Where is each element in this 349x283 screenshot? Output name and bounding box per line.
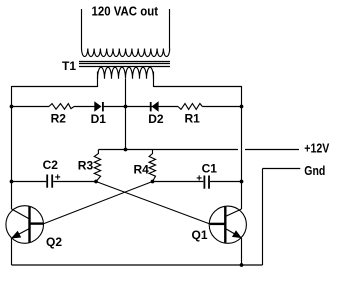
wire center tap vertical <box>125 79 127 150</box>
svg-text:Gnd: Gnd <box>304 163 325 178</box>
transformer T1 primary lead left <box>81 9 83 49</box>
wire right rail lower <box>241 238 243 265</box>
wire mid line left (R2 D1 row) <box>12 106 126 108</box>
node junction dots <box>10 105 244 267</box>
transformer T1 secondary right leg <box>153 72 155 88</box>
svg-text:R4: R4 <box>134 163 150 177</box>
svg-text:R3: R3 <box>78 159 94 173</box>
svg-text:C2: C2 <box>43 158 59 172</box>
svg-text:+: + <box>196 174 202 185</box>
svg-text:+12V: +12V <box>304 141 329 156</box>
resistor R2 <box>49 104 74 110</box>
resistor R4 <box>149 150 155 182</box>
transformer T1 secondary left leg <box>97 72 99 88</box>
capacitor C2 <box>47 175 52 188</box>
wire right rail upper <box>241 86 243 209</box>
transistor Q2 <box>6 206 44 244</box>
wire R4 to C1 <box>153 181 204 183</box>
wire Gnd stub <box>263 168 301 170</box>
svg-text:Q2: Q2 <box>46 235 62 249</box>
transistor Q1 <box>209 206 246 243</box>
svg-text:120 VAC out: 120 VAC out <box>92 3 159 18</box>
diode D2 <box>151 102 159 111</box>
wire C2 row left <box>12 181 47 183</box>
wire Gnd riser <box>262 169 264 266</box>
svg-text:R1: R1 <box>185 112 201 126</box>
svg-text:R2: R2 <box>51 112 67 126</box>
svg-text:D2: D2 <box>148 112 164 126</box>
transformer T1 primary lead right <box>169 9 171 49</box>
capacitor C1 <box>204 176 209 189</box>
resistor R3 <box>94 150 100 182</box>
wire left rail lower <box>11 238 13 265</box>
svg-text:T1: T1 <box>62 59 76 73</box>
transformer T1 core lines <box>79 62 170 67</box>
transformer T1 secondary winding <box>98 67 154 78</box>
transformer T1 primary winding <box>82 49 170 57</box>
wire bottom rail <box>12 264 263 266</box>
wire top rail right <box>154 86 242 88</box>
wire C1 to right rail <box>210 181 242 183</box>
wire cross-couple diagonal R3 to Q1 base <box>96 182 210 225</box>
svg-text:+: + <box>55 173 61 184</box>
resistor R1 <box>178 104 202 110</box>
svg-text:Q1: Q1 <box>192 228 208 242</box>
wire mid line right (D2 R1 row) <box>126 106 242 108</box>
svg-text:C1: C1 <box>202 162 218 176</box>
wire cross-couple diagonal R4 to Q2 base <box>44 182 153 224</box>
wire +12V line right of rail <box>245 149 299 151</box>
wire C2 to R3 <box>53 181 96 183</box>
wire +12V line left of rail <box>99 149 239 151</box>
diode D1 <box>95 102 103 111</box>
wire left rail upper <box>11 86 13 209</box>
svg-text:D1: D1 <box>91 112 107 126</box>
wire top rail left <box>12 86 98 88</box>
